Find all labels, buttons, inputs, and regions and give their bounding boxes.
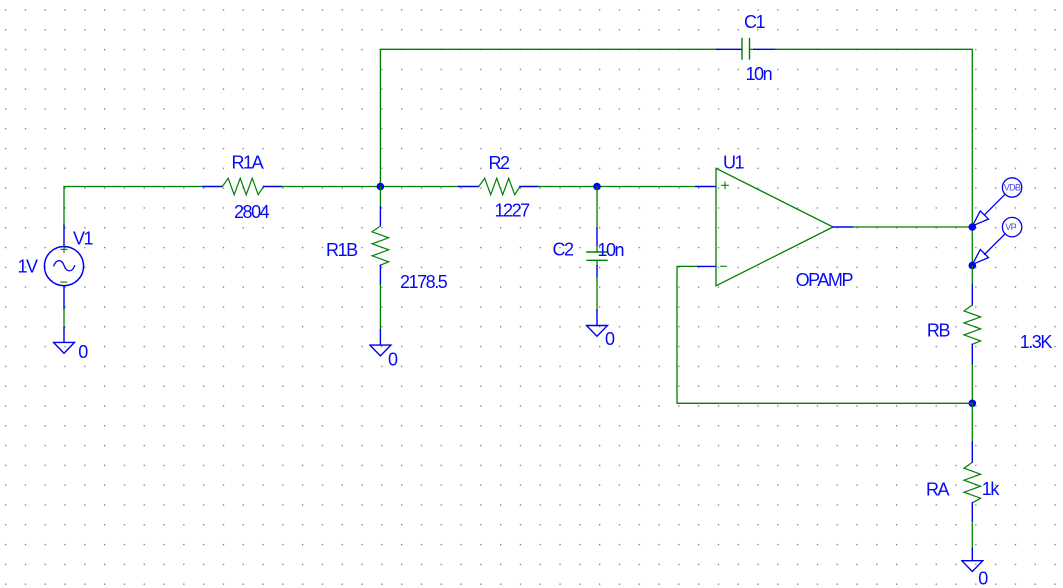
svg-text:VDB: VDB — [1004, 183, 1021, 193]
capacitor C1 — [717, 39, 776, 60]
wire R2 to opamp plus input — [539, 186, 696, 188]
wire C1 to output drop — [775, 49, 972, 265]
svg-text:0: 0 — [78, 342, 88, 362]
svg-text:0: 0 — [978, 568, 988, 588]
node C junction — [969, 223, 977, 231]
svg-text:OPAMP: OPAMP — [796, 270, 854, 290]
wire RA to ground — [971, 522, 973, 549]
wire R1A to R2 through node — [282, 186, 458, 188]
resistor R1A — [203, 178, 282, 194]
svg-text:U1: U1 — [723, 152, 745, 172]
svg-text:10n: 10n — [597, 240, 623, 260]
resistor R2 — [458, 178, 538, 194]
svg-text:V1: V1 — [73, 229, 94, 249]
svg-text:0: 0 — [388, 350, 398, 370]
node B junction — [593, 183, 601, 191]
svg-text:R1A: R1A — [232, 152, 264, 172]
resistor RA — [964, 403, 981, 521]
svg-text:1V: 1V — [18, 256, 39, 276]
svg-text:R1B: R1B — [326, 240, 358, 260]
svg-text:10n: 10n — [746, 64, 772, 84]
ground under R1B — [370, 330, 391, 356]
svg-text:C2: C2 — [553, 240, 575, 260]
wire RB to node E — [971, 365, 973, 404]
svg-text:RB: RB — [927, 320, 951, 340]
capacitor C2 — [587, 187, 607, 278]
wire V1 to ground — [63, 309, 65, 328]
probe VDB — [973, 178, 1022, 226]
wire opamp output to node C — [853, 226, 972, 228]
svg-text:1k: 1k — [982, 479, 1001, 499]
node A junction — [377, 183, 385, 191]
node E junction — [969, 400, 977, 408]
source V1 — [44, 225, 83, 309]
wire C1 branch riser at node A — [380, 49, 716, 186]
wire feedback from node E to opamp minus input — [677, 266, 972, 403]
wire V1 top to main line corner — [64, 187, 203, 226]
svg-text:1227: 1227 — [495, 201, 531, 221]
node D junction — [969, 262, 977, 270]
op-amp U1 — [696, 168, 853, 285]
resistor R1B — [372, 187, 389, 285]
svg-text:0: 0 — [605, 329, 615, 349]
svg-text:C1: C1 — [744, 12, 766, 32]
resistor RB — [964, 266, 981, 365]
svg-text:RA: RA — [926, 479, 950, 499]
svg-text:VP: VP — [1005, 222, 1016, 232]
probe VP — [973, 217, 1022, 264]
wire C2 to ground — [596, 277, 598, 310]
svg-text:2178.5: 2178.5 — [400, 272, 448, 292]
wire R1B to ground — [379, 285, 381, 331]
ground under RA — [962, 549, 983, 572]
ground under C2 — [587, 310, 608, 336]
svg-text:2804: 2804 — [234, 202, 270, 222]
svg-text:1.3K: 1.3K — [1020, 332, 1053, 352]
svg-text:R2: R2 — [489, 153, 511, 173]
ground under V1 — [54, 328, 75, 354]
